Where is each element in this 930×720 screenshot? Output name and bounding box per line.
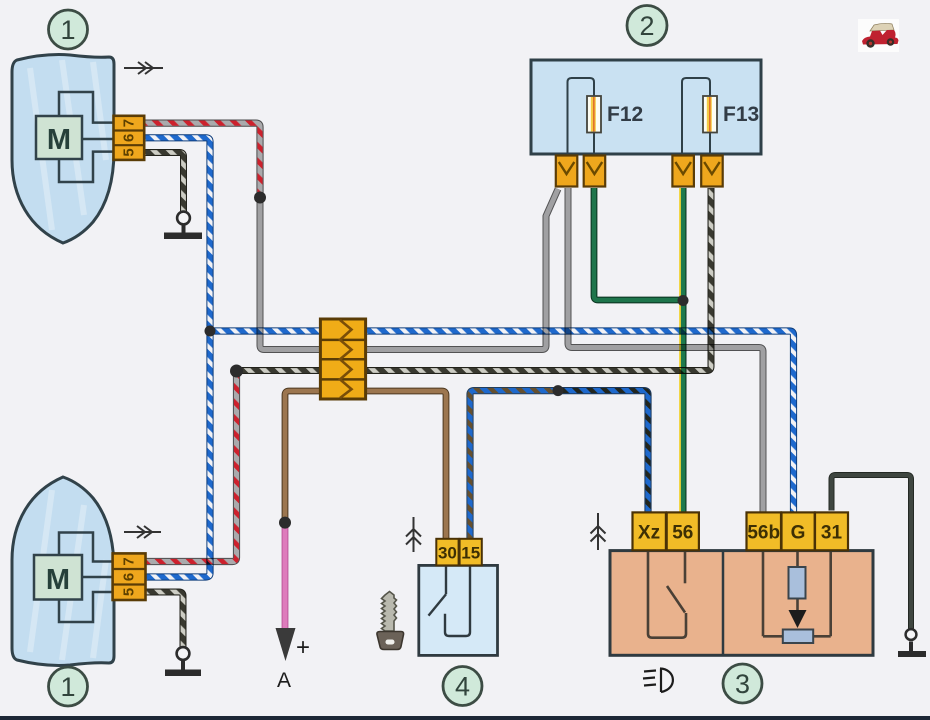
wire blue headlamps vertical [145,138,210,577]
headlight beam symbol [643,669,673,693]
motor lead pin 6 (top motor) [82,138,113,141]
terminal 15 [460,539,482,566]
fuse box 2 [531,60,761,154]
connector block 5-6-7 (top motor) [114,116,145,160]
arrow A battery plus [276,628,311,692]
terminal 56b [747,512,782,550]
motor bracket (top motor) [59,92,113,182]
motor M2 (bottom) [34,555,82,600]
wire gray to fuse F12 left [260,189,558,350]
terminal 30 [436,539,458,566]
callout circle 1 (bottom) [49,667,88,706]
wire black-white headlamp2 ground [145,592,183,647]
resistor element [789,567,806,599]
rheostat circuit (right section) [763,552,831,636]
bottom scan edge [0,716,930,720]
wire black-white headlamp1 top ground [145,153,184,212]
disconnect arrow symbol (bottom) [124,526,161,538]
connector block 5-6-7 (bottom motor) [113,553,146,600]
svg-text:G: G [791,523,806,544]
junction brown to pink [279,517,291,529]
svg-text:4: 4 [455,672,470,702]
callout circle 1 (top) [49,10,88,49]
fuse box pin 4 [701,156,723,187]
ground symbol bottom left [165,647,201,676]
svg-text:6: 6 [121,573,138,581]
svg-text:A: A [277,669,291,692]
light switch unit 3 [610,551,873,656]
fuse F12 internal wiring [568,78,595,154]
svg-text:31: 31 [821,523,843,544]
callout circle 2 [627,6,667,46]
wire pink battery feed [284,523,286,630]
svg-text:7: 7 [121,119,138,127]
svg-text:M: M [46,564,70,596]
headlamp housing 1 (bottom left) [12,477,114,665]
junction green wires [678,295,689,306]
svg-text:F12: F12 [607,103,643,126]
wire black-white from fuse F13 [237,188,712,371]
svg-text:56: 56 [672,523,693,544]
fuse box pin 1 [556,156,578,187]
fuse F13 [703,96,759,133]
motor M1 (top) [36,116,82,159]
terminal G [782,512,815,550]
svg-text:3: 3 [735,669,750,699]
svg-text:1: 1 [60,15,75,45]
junction blue row [205,326,216,337]
terminal Xz [633,512,666,550]
switch unit divider [722,551,725,656]
headlamp housing 1 (top left) [12,55,114,243]
ignition switch 4 [419,565,498,655]
wire red-gray bottom headlamp feed [145,371,237,562]
wire green F12 output [594,188,681,300]
ground symbol bottom right [898,629,926,657]
wire green-yellow to terminal 56 [680,188,683,512]
switch contact circuit (left section) [648,552,686,638]
wire dark ground of switch terminal 31 [832,475,912,629]
svg-text:5: 5 [121,588,138,596]
fuse box pin 3 [672,156,694,187]
ignition key icon [377,592,404,650]
disconnect arrow symbol (top) [124,62,163,74]
svg-text:56b: 56b [747,523,780,544]
svg-text:7: 7 [121,557,138,565]
svg-text:2: 2 [639,11,654,41]
wire blue-black to terminal Xz [558,391,648,513]
motor bracket (bottom motor) [59,533,112,623]
svg-text:F13: F13 [723,103,759,126]
junction blue-brown splice [553,385,564,396]
svg-text:1: 1 [60,672,75,702]
rheostat track [783,630,813,644]
fuse F12 [587,96,643,133]
junction black-white and red-gray [230,365,243,378]
fuse box pin 2 [584,156,606,187]
svg-text:+: + [296,634,310,661]
svg-text:M: M [47,124,71,156]
terminal 56 [667,512,699,550]
motor lead pin 6 (bottom motor) [82,576,113,579]
wire brown to ignition terminal 30 [285,391,446,539]
wiper arrow [789,610,807,628]
branch symbol near ignition [406,517,421,552]
callout circle 4 [443,667,482,706]
svg-text:15: 15 [461,544,480,563]
wire gray fuse F12 to terminal 56b [568,188,763,512]
branch symbol near light switch [591,513,606,550]
terminal 31 [815,512,848,550]
publisher car logo [858,19,899,52]
svg-text:Xz: Xz [638,523,660,544]
svg-text:6: 6 [121,134,138,142]
junction red-gray to gray [254,192,266,204]
wire red-gray top headlamp feed [145,123,260,197]
svg-text:5: 5 [121,148,138,156]
svg-text:30: 30 [438,544,457,563]
wire blue-brown from ignition terminal 15 [470,391,558,539]
connection block (4-way splice) [320,319,365,399]
ignition contact circuit [429,565,471,636]
wire blue main row to terminal G [210,331,794,512]
callout circle 3 [723,664,762,703]
ground symbol top left [164,212,202,239]
fuse F13 internal wiring [682,78,710,154]
